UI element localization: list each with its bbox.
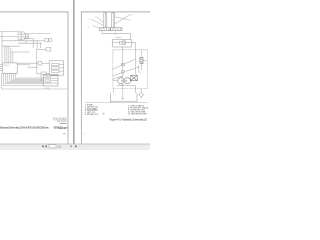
pump inlet label	[116, 36, 122, 38]
gear motor M2	[124, 78, 130, 84]
right page top border	[81, 11, 150, 13]
relay K1	[49, 39, 52, 42]
return line	[140, 89, 142, 93]
wire row 3	[2, 40, 45, 42]
svg-text:AND NOTES: AND NOTES	[57, 120, 68, 123]
relay K2	[38, 62, 42, 65]
svg-text:4: 4	[130, 20, 131, 22]
svg-text:Figure 5-8: Figure 5-8	[58, 128, 66, 130]
circuit breaker CB1	[45, 39, 49, 42]
next arrow	[75, 145, 77, 147]
svg-text:11. RETURN FILTER: 11. RETURN FILTER	[128, 113, 147, 115]
diode module D1	[46, 48, 51, 51]
controller pin wires left	[0, 64, 3, 66]
pipe	[135, 50, 137, 74]
solenoid valve V1	[140, 58, 143, 64]
ground bus ticks	[44, 88, 46, 89]
valve manifold dashed box	[113, 50, 148, 89]
leader diagonal	[112, 76, 123, 80]
pump assembly box	[113, 39, 132, 47]
cylinder 2	[112, 13, 115, 28]
harness wires below controller	[15, 73, 44, 78]
toolbar background	[0, 144, 150, 150]
svg-text:P3: P3	[40, 80, 42, 82]
svg-text:Figure.4-3..Hydraulic.Schemati: Figure.4-3..Hydraulic.Schematic.(D	[110, 117, 148, 121]
svg-text:1: 1	[95, 17, 96, 19]
svg-text:P2: P2	[40, 78, 42, 80]
prev page button	[42, 145, 44, 147]
pipe	[113, 79, 118, 81]
wire	[17, 64, 30, 66]
left page top border	[0, 11, 68, 13]
svg-text:58: 58	[63, 134, 65, 136]
orifice on pipe	[121, 71, 124, 73]
svg-text:3: 3	[131, 14, 132, 16]
wire	[36, 41, 38, 50]
suction strainer	[121, 98, 124, 100]
svg-text:2: 2	[89, 20, 90, 22]
leader diagonal	[112, 59, 135, 69]
wire	[11, 51, 30, 53]
relief valve	[131, 75, 137, 81]
wire	[32, 38, 34, 48]
svg-text:Electrical.Schematic.(DANUHER.: Electrical.Schematic.(DANUHER.S/N.850000…	[0, 125, 49, 129]
mounting plate 2	[111, 28, 122, 31]
pipe stub	[112, 42, 120, 44]
controller U1	[3, 63, 18, 73]
wire	[46, 72, 49, 74]
figure caption left page	[0, 125, 68, 129]
leader diagonal	[112, 67, 140, 76]
wire	[24, 32, 50, 34]
suction line into tank	[122, 84, 124, 99]
gear motor M1	[118, 78, 124, 84]
svg-text:ECU: ECU	[4, 65, 9, 67]
figure caption right page	[110, 117, 148, 121]
wire	[35, 49, 37, 73]
wire row 2	[0, 36, 18, 38]
relay block K3	[49, 61, 63, 75]
coupling	[119, 41, 122, 44]
pipe	[113, 89, 115, 93]
diode module D2	[41, 72, 46, 75]
wire	[37, 48, 46, 50]
pressure line	[126, 43, 136, 50]
left page right border	[67, 11, 69, 144]
svg-text:22: 22	[25, 42, 27, 44]
svg-text:/112: /112	[57, 146, 62, 148]
wire	[42, 62, 49, 64]
wire	[36, 72, 41, 74]
pipe	[135, 86, 137, 93]
svg-text:6. MOUNT PLT: 6. MOUNT PLT	[85, 114, 99, 116]
nav separator	[46, 145, 47, 148]
wire	[27, 66, 38, 68]
legend rule line	[85, 101, 148, 103]
stray note mark	[103, 113, 105, 114]
connector J1	[44, 74, 58, 86]
fuse F2	[18, 37, 21, 40]
reservoir	[110, 93, 137, 102]
svg-text:1: 1	[84, 134, 85, 136]
mounting plate 1	[99, 28, 110, 31]
wire row 4	[18, 42, 42, 44]
pipe	[122, 47, 124, 78]
wire battery feed row 1	[0, 30, 18, 32]
svg-text:6: 6	[88, 27, 89, 29]
fuse F1	[18, 32, 21, 35]
zoom dot	[71, 146, 72, 148]
wire	[39, 43, 41, 48]
wire row 5	[2, 45, 20, 47]
page gap divider	[73, 0, 75, 144]
pilot lines below solenoid	[140, 64, 142, 71]
label leader lines cylinders	[91, 19, 104, 25]
svg-text:P1: P1	[40, 75, 42, 77]
wire	[24, 37, 33, 39]
wire	[17, 62, 38, 64]
junction node	[115, 33, 116, 34]
check valve	[139, 92, 144, 97]
pipe	[102, 31, 131, 40]
pump P1	[122, 41, 126, 45]
relay K4	[25, 35, 28, 37]
cylinder 1	[104, 13, 107, 28]
right page left border	[80, 11, 82, 144]
orifice on pipe	[121, 63, 124, 66]
pipe under motors	[117, 85, 136, 87]
page input field	[49, 145, 56, 148]
wire fan into controller	[1, 31, 3, 63]
